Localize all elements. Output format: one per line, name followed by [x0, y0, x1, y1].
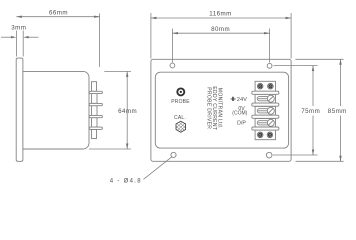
arrow 64mm bottom: [126, 144, 128, 150]
svg-text:D/P: D/P: [237, 121, 246, 127]
dim 85mm extension top: [296, 58, 344, 60]
separator bar 2 (side view): [89, 103, 102, 105]
svg-text:PROBE: PROBE: [171, 99, 190, 105]
arrow 85mm top: [339, 59, 341, 65]
wire clamp slot 3: [257, 121, 269, 125]
strip separator plate 1 (front view): [252, 91, 279, 94]
terminal stack mid block 1 (side view): [92, 94, 98, 104]
terminal stack mid block 3 (side view): [92, 118, 98, 128]
terminal screw 1: [267, 95, 274, 102]
fixing screw top box right: [268, 83, 274, 89]
dim 64mm line: [126, 71, 128, 149]
terminal screw 2: [267, 107, 274, 114]
dim 64mm extension top: [104, 70, 131, 72]
dim 3mm arrow tails: [1, 36, 12, 38]
separator bar 1 (side view): [89, 91, 102, 93]
arrow 75mm top: [312, 66, 314, 72]
dim 85mm line: [340, 59, 342, 106]
dim 80mm line: [172, 32, 269, 34]
svg-text:+: +: [231, 95, 236, 104]
terminal screw 3: [267, 119, 274, 126]
CAL trimmer hexagon: [176, 121, 186, 132]
arrow 3mm left: [11, 36, 17, 38]
dim 75mm extension top: [274, 65, 318, 67]
dim 85mm extension bottom: [296, 160, 344, 162]
fixing screw top box left: [257, 83, 263, 89]
arrow 116mm left: [151, 17, 157, 19]
terminal strip bottom box (front view): [255, 130, 275, 140]
terminal cell 1 (front view): [255, 94, 275, 103]
side view flange: [16, 58, 23, 161]
svg-text:116mm: 116mm: [209, 11, 231, 18]
svg-text:64mm: 64mm: [118, 108, 137, 115]
svg-text:CAL.: CAL.: [174, 115, 186, 121]
leader line for hole note: [144, 157, 172, 179]
svg-text:PROBE DRIVER: PROBE DRIVER: [206, 87, 212, 129]
arrow 75mm bottom: [312, 150, 314, 156]
dim 80mm extension left: [171, 29, 173, 63]
separator bar 4 (side view): [89, 127, 102, 129]
terminal cell 3 (front view): [255, 119, 275, 128]
dim 3mm extension line right: [22, 31, 24, 57]
arrow 66mm left: [16, 16, 22, 18]
dim 66mm line: [16, 16, 99, 18]
arrow 80mm left: [172, 32, 178, 34]
wire clamp slot 1: [257, 97, 269, 101]
front panel outer rect: [151, 59, 291, 161]
terminal stack top block (side view): [92, 82, 97, 92]
arrow 66mm right: [94, 16, 100, 18]
separator bar 3 (side view): [89, 115, 102, 117]
fixing screw bottom box left: [257, 132, 263, 138]
svg-text:4 - Ø4.8: 4 - Ø4.8: [110, 178, 142, 184]
arrow 64mm top: [126, 71, 128, 77]
svg-text:24V: 24V: [237, 97, 247, 103]
arrow 3mm right: [23, 36, 29, 38]
svg-text:3mm: 3mm: [11, 24, 26, 31]
dim 64mm extension bottom: [89, 148, 131, 150]
svg-text:80mm: 80mm: [211, 26, 230, 33]
arrow 80mm right: [264, 32, 270, 34]
terminal stack mid block 2 (side view): [92, 106, 98, 116]
front panel inner rect: [155, 72, 288, 148]
strip separator plate 2 (front view): [252, 103, 279, 106]
arrow 116mm right: [286, 17, 292, 19]
fixing screw bottom box right: [267, 132, 273, 138]
dim 116mm extension right: [290, 13, 292, 59]
mounting hole top-left: [170, 63, 175, 68]
svg-text:(COM): (COM): [232, 111, 247, 117]
wire clamp slot 2: [257, 109, 269, 113]
dim 80mm extension right: [269, 29, 271, 63]
terminal cell 2 (front view): [255, 106, 275, 115]
dim 116mm extension left: [150, 13, 152, 59]
svg-text:75mm: 75mm: [301, 108, 320, 115]
mounting hole top-right: [267, 63, 272, 68]
mounting hole bottom-right: [266, 152, 272, 158]
arrow 85mm bottom: [339, 156, 341, 162]
svg-text:66mm: 66mm: [49, 9, 68, 16]
dim 75mm line: [312, 66, 314, 107]
dim 116mm line: [151, 17, 291, 19]
strip separator plate 4 (front view): [252, 127, 279, 130]
dim 66mm extension line right: [99, 14, 101, 68]
terminal stack bottom block (side view): [92, 129, 97, 138]
+24V label: [230, 95, 247, 104]
dim 75mm extension bottom: [273, 154, 318, 156]
dim 3mm extension line left: [15, 31, 17, 57]
mounting hole bottom-left: [171, 152, 176, 157]
PROBE connector icon: [177, 88, 184, 95]
strip separator plate 3 (front view): [252, 115, 279, 118]
terminal strip top box (front view): [255, 81, 275, 91]
panel legend rotated text MONITRAN Ltd. / EDDY CURRENT / PROBE DRIVER: [206, 86, 223, 130]
svg-text:85mm: 85mm: [328, 108, 347, 115]
side view body: [23, 71, 89, 149]
